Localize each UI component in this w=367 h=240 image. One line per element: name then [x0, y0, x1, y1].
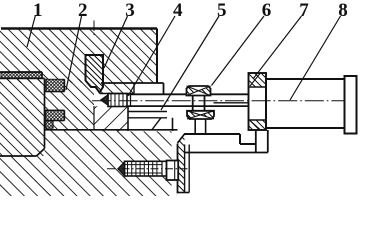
leader 2 — [66, 16, 82, 90]
guide spool (part 6) flanges and legs — [187, 86, 215, 134]
svg-text:5: 5 — [217, 0, 227, 21]
leader 8 — [290, 16, 341, 100]
support column under nut — [255, 130, 257, 153]
middle bar with opposite hatch — [94, 106, 173, 131]
bottom plate left portion hatch — [0, 156, 45, 196]
top edge of body — [1, 27, 157, 29]
leader 7 — [253, 16, 302, 79]
leader 3 — [104, 16, 128, 68]
bracket base and left leg — [177, 130, 268, 196]
leader lines — [27, 15, 341, 110]
bottom clamp screw with hex head — [118, 161, 178, 181]
fixture body upper block section hatch (part 1) — [0, 29, 157, 84]
bushing (part 3) — [86, 55, 104, 93]
svg-text:7: 7 — [299, 0, 309, 21]
middle bar internals — [93, 106, 95, 130]
lower interface lines — [45, 129, 178, 131]
slide bar pocket — [128, 106, 173, 131]
base bottom edge — [185, 152, 268, 154]
bracket left leg section hatch — [178, 134, 185, 193]
center lines — [92, 21, 345, 169]
main horizontal centerline — [92, 100, 345, 102]
bottom plate section hatch — [45, 130, 172, 197]
slide bar section hatch (opposite direction) — [94, 106, 128, 131]
seal strip step — [0, 71, 42, 73]
svg-text:2: 2 — [78, 0, 88, 21]
svg-text:4: 4 — [173, 0, 183, 21]
threaded plug (part 4) and pull rod (part 5) — [101, 94, 249, 107]
svg-text:8: 8 — [338, 0, 348, 21]
bushing vertical centerline tick — [93, 21, 95, 36]
leader 6 — [212, 16, 265, 86]
clamp screw centerline — [107, 168, 188, 170]
hatched body regions — [0, 29, 185, 197]
felt seal strips (part 2) — [1, 72, 64, 128]
left plate lower portion hatch — [0, 130, 45, 157]
nut (part 7) — [249, 73, 267, 130]
part numbers — [33, 0, 348, 21]
body web above plug hole — [101, 83, 134, 94]
left lower plate section hatch — [0, 79, 94, 130]
underside of top block — [101, 82, 164, 84]
svg-text:3: 3 — [125, 0, 135, 21]
svg-text:6: 6 — [262, 0, 272, 21]
right edge of top block — [156, 29, 158, 84]
svg-text:1: 1 — [33, 0, 43, 21]
leader 5 — [161, 16, 219, 110]
leader 1 — [27, 15, 36, 47]
guide spool (part 6) waist background — [193, 96, 205, 111]
cylinder handle (part 8) with end cap — [266, 76, 357, 134]
main body outlines — [0, 29, 178, 157]
leader 4 — [128, 16, 175, 96]
